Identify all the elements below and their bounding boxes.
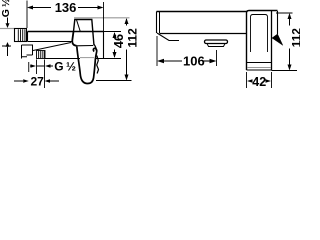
spout arm [157,12,247,41]
leader arrow down to upper union [6,18,10,29]
knurled union nut (upper connector) [15,29,27,42]
G 1/2 callout (bottom) [29,60,76,89]
dim 42 [247,72,272,89]
dim 136 [27,0,104,31]
lower connector box [22,45,33,59]
handle foot [72,32,76,46]
svg-text:46: 46 [111,34,126,48]
gray handle-top reference line [74,17,130,19]
dim 46 [104,32,127,59]
dim 112 (right view) [272,13,304,71]
svg-text:106: 106 [183,53,205,68]
svg-text:136: 136 [55,0,77,15]
gray reference line at upper union [0,28,15,30]
hatched outlet nipple [37,51,46,59]
svg-text:G ½: G ½ [0,0,12,17]
up arrow at lower left [2,42,11,56]
svg-text:42: 42 [252,75,266,89]
label G 1/2 (top-left, rotated) [0,0,12,17]
lever (side) [272,11,283,45]
svg-text:G ½: G ½ [54,60,76,74]
svg-text:27: 27 [31,75,45,89]
aerator outlet under arm [205,40,228,47]
dim 106 [157,36,217,68]
dim 27 [14,75,59,89]
underside taper line [33,43,71,51]
handle lever (front) [74,20,95,46]
svg-text:112: 112 [289,28,300,48]
handspray capsule hanging below [77,47,97,84]
spout underside edge [76,45,93,47]
column (handle housing) [247,11,278,71]
dim 112 (left view) [96,18,139,81]
bottom line of spout / extension for 46 [45,58,81,60]
hose break zigzag [94,45,98,74]
body bar outline [28,32,104,59]
svg-text:112: 112 [125,28,139,48]
